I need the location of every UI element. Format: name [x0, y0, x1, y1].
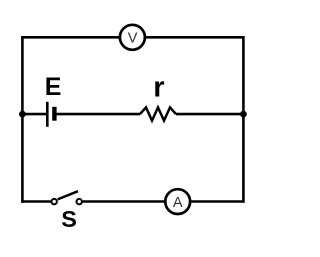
- svg-text:V: V: [128, 31, 138, 47]
- switch lever: [58, 191, 78, 199]
- wire bottom-left to switch: [21, 200, 51, 203]
- battery E long plate: [46, 102, 49, 127]
- wire middle right segment: [176, 113, 243, 116]
- node right junction dot: [240, 111, 247, 118]
- svg-text:r: r: [153, 71, 164, 103]
- wire right: [242, 36, 245, 203]
- resistor r zigzag: [140, 107, 176, 120]
- svg-text:A: A: [173, 195, 183, 211]
- node left junction dot: [19, 111, 26, 118]
- wire top: [21, 36, 244, 39]
- switch S right terminal: [77, 199, 82, 204]
- ammeter A: [165, 189, 190, 214]
- switch S left terminal: [52, 199, 57, 204]
- svg-text:S: S: [61, 206, 77, 232]
- voltmeter V: [120, 25, 145, 50]
- wire middle mid segment: [54, 113, 140, 116]
- battery E short plate: [52, 107, 56, 121]
- wire switch to ammeter and to bottom-right: [82, 200, 244, 203]
- svg-text:E: E: [45, 73, 62, 101]
- wire middle left segment: [22, 113, 47, 116]
- wire left: [21, 36, 24, 203]
